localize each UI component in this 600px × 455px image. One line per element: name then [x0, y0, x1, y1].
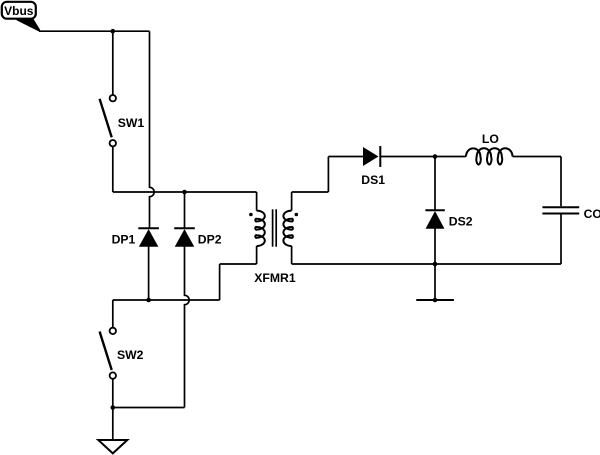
transformer XFMR1 secondary phase dot — [295, 213, 299, 217]
svg-text:LO: LO — [482, 132, 499, 146]
switch SW2 bottom terminal — [110, 372, 116, 378]
svg-text:CO: CO — [584, 207, 600, 221]
transformer XFMR1 primary winding — [255, 211, 265, 246]
diode DP1 cathode bar — [138, 227, 159, 229]
switch SW1 bottom terminal — [110, 140, 116, 146]
diode DP1 triangle — [140, 230, 158, 247]
wire SW2 top — [112, 300, 114, 328]
wire riser x=219.6 (y=300 rail up to primary bottom) — [219, 264, 221, 300]
wire node D to ground — [112, 408, 114, 441]
svg-text:XFMR1: XFMR1 — [254, 271, 296, 285]
net flag Vbus tail — [17, 19, 41, 32]
diode DS2 cathode wire from node E — [434, 157, 436, 211]
inductor LO winding — [466, 148, 512, 164]
switch SW2 lever — [100, 332, 112, 371]
wire y=264 to primary bottom stem — [220, 263, 257, 265]
transformer XFMR1 primary stem top — [256, 192, 258, 211]
diode DS2 cathode bar — [425, 209, 444, 211]
node C junction dot — [146, 298, 151, 303]
node B junction dot (DP2 top) — [182, 190, 187, 195]
wire top rail y=31 — [39, 30, 150, 32]
wire SW2 bottom to node D — [112, 379, 114, 408]
node E junction dot (DS2 top) — [433, 154, 438, 159]
transformer XFMR1 secondary winding — [283, 211, 293, 246]
wire secondary top to riser — [292, 191, 329, 193]
node A junction dot — [111, 29, 116, 34]
svg-text:Vbus: Vbus — [4, 4, 34, 18]
wire node A to SW1 — [112, 31, 114, 95]
switch SW2 top terminal — [110, 328, 116, 334]
transformer XFMR1 secondary stem bottom — [291, 246, 293, 264]
transformer XFMR1 secondary stem top — [291, 192, 293, 211]
ground (right) node dot — [433, 298, 438, 303]
capacitor CO bottom plate — [542, 213, 579, 215]
svg-text:SW1: SW1 — [118, 116, 145, 130]
wire y=300 rail (SW2 top to x=219 riser) — [113, 299, 220, 301]
diode DP2 cathode wire from node B — [184, 192, 186, 228]
wire CO bottom to y=264 rail — [560, 215, 562, 265]
wire y=156.5 to DS1 — [328, 156, 363, 158]
wire DP2 anode down with hop over y=300, to y=407.5 — [185, 246, 190, 407]
svg-text:DP1: DP1 — [112, 232, 136, 246]
svg-text:DS1: DS1 — [361, 173, 385, 187]
node F junction dot — [433, 262, 438, 267]
diode DS1 cathode bar — [379, 146, 381, 167]
wire y=264 bottom rail (secondary bottom to CO) — [292, 263, 561, 265]
net flag Vbus box — [2, 2, 36, 19]
wire Vbus drop x=149.5 with hop over y=192 — [150, 31, 155, 228]
svg-text:DS2: DS2 — [449, 215, 473, 229]
diode DP2 cathode bar — [174, 227, 195, 229]
node D junction dot — [111, 405, 116, 410]
wire LO to CO riser — [513, 156, 562, 158]
svg-text:DP2: DP2 — [198, 232, 222, 246]
wire riser x=328.4 — [327, 157, 329, 193]
svg-text:SW2: SW2 — [117, 348, 144, 362]
diode DS1 triangle — [363, 148, 377, 166]
transformer XFMR1 primary phase dot — [249, 213, 253, 217]
diode DS2 triangle — [426, 212, 444, 228]
capacitor CO top plate — [542, 206, 579, 208]
transformer XFMR1 core — [272, 209, 274, 246]
switch SW1 lever — [100, 99, 112, 138]
transformer XFMR1 primary stem bottom — [256, 246, 258, 264]
wire node F to ground — [434, 264, 436, 300]
wire DS1 cathode to LO — [380, 156, 466, 158]
wire riser x=561 down to CO — [560, 157, 562, 207]
diode DP2 triangle — [175, 230, 193, 247]
wire SW1 to y=192 rail — [112, 146, 114, 192]
wire y=192 rail (SW1 bottom to transformer primary top) — [113, 191, 257, 193]
switch SW1 top terminal — [110, 95, 116, 101]
ground (right, bar) — [416, 299, 454, 301]
wire DP1 anode to node C — [148, 246, 150, 300]
ground (left, triangle) — [98, 440, 127, 453]
wire y=407.5 (DP2 anode to node D) — [113, 407, 185, 409]
wire DS2 anode to node F — [434, 228, 436, 264]
